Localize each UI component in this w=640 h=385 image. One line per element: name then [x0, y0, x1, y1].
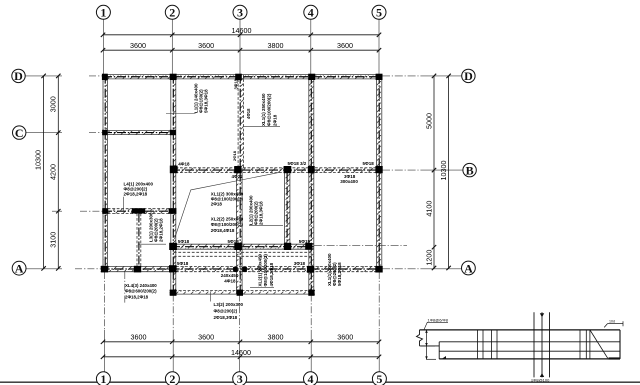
svg-text:14600: 14600: [231, 348, 251, 357]
svg-text:4100: 4100: [424, 201, 433, 217]
svg-text:3600: 3600: [337, 41, 353, 50]
svg-text:XL4(3) 240x400: XL4(3) 240x400: [125, 283, 157, 288]
svg-text:2: 2: [169, 372, 175, 385]
svg-text:2Φ18: 2Φ18: [272, 114, 277, 126]
svg-text:3600: 3600: [198, 332, 214, 341]
svg-text:5: 5: [376, 5, 382, 19]
svg-text:4Φ18: 4Φ18: [178, 162, 190, 167]
svg-text:4Φ18,2Φ18: 4Φ18,2Φ18: [269, 262, 274, 286]
svg-text:10300: 10300: [34, 150, 43, 170]
svg-text:14600: 14600: [232, 26, 252, 35]
svg-text:3800: 3800: [268, 332, 284, 341]
svg-text:Φ8@200(2): Φ8@200(2): [214, 308, 238, 313]
svg-text:4: 4: [308, 5, 314, 19]
svg-text:10d: 10d: [609, 320, 615, 324]
svg-text:XL2(2) 250x450: XL2(2) 250x450: [211, 216, 244, 221]
svg-text:≥Φ8@100: ≥Φ8@100: [531, 378, 550, 383]
svg-text:5Φ18,2Φ18: 5Φ18,2Φ18: [337, 262, 342, 286]
svg-text:2Φ18: 2Φ18: [232, 150, 237, 161]
svg-text:Φ8@100/200(2): Φ8@100/200(2): [211, 222, 244, 227]
svg-text:A: A: [15, 262, 24, 276]
svg-text:3600: 3600: [198, 41, 214, 50]
svg-text:3600: 3600: [131, 332, 147, 341]
svg-text:1: 1: [100, 5, 106, 19]
svg-text:L3(2) 200x300: L3(2) 200x300: [214, 302, 244, 307]
svg-text:B: B: [466, 163, 474, 177]
svg-text:2: 2: [169, 5, 175, 19]
svg-text:3000: 3000: [49, 96, 58, 112]
svg-text:10300: 10300: [439, 161, 448, 181]
svg-text:4200: 4200: [49, 164, 58, 180]
svg-text:XL1(1) 250x450: XL1(1) 250x450: [261, 93, 266, 126]
svg-text:D: D: [14, 69, 23, 83]
svg-text:5Φ18: 5Φ18: [228, 239, 240, 244]
svg-text:4Φ18: 4Φ18: [246, 108, 251, 119]
svg-text:3: 3: [237, 372, 243, 385]
svg-text:Φ8@100/200(2): Φ8@100/200(2): [263, 254, 268, 287]
svg-text:5Φ18 3/2: 5Φ18 3/2: [288, 161, 307, 166]
svg-text:1Φ8@6/Φ8: 1Φ8@6/Φ8: [428, 317, 449, 322]
svg-text:A: A: [464, 261, 473, 275]
svg-text:4Φ18: 4Φ18: [224, 278, 236, 283]
svg-text:D: D: [464, 69, 473, 83]
svg-text:3800: 3800: [268, 41, 284, 50]
svg-text:Φ8@600/200(2): Φ8@600/200(2): [125, 289, 157, 294]
svg-text:3600: 3600: [130, 41, 146, 50]
svg-text:1200: 1200: [424, 250, 433, 266]
svg-text:4: 4: [308, 372, 314, 385]
svg-text:5Φ18: 5Φ18: [363, 161, 375, 166]
svg-text:5Φ18: 5Φ18: [177, 261, 189, 266]
svg-text:XL2(1) 240x450: XL2(1) 240x450: [258, 253, 263, 286]
svg-text:2Φ18,3Φ18: 2Φ18,3Φ18: [258, 201, 263, 225]
svg-text:3: 3: [237, 5, 243, 19]
svg-text:Φ8@100/200(2): Φ8@100/200(2): [267, 93, 272, 126]
svg-text:5000: 5000: [424, 113, 433, 129]
svg-text:3600: 3600: [337, 332, 353, 341]
svg-text:2Φ18,3Φ18: 2Φ18,3Φ18: [214, 315, 238, 320]
svg-text:3Φ18: 3Φ18: [234, 78, 239, 89]
svg-text:4Φ22: 4Φ22: [232, 174, 244, 179]
svg-text:3Φ18: 3Φ18: [294, 261, 306, 266]
svg-text:1: 1: [100, 372, 106, 385]
svg-text:2Φ18,2Φ18: 2Φ18,2Φ18: [125, 294, 149, 299]
svg-text:2Φ18,2Φ18: 2Φ18,2Φ18: [158, 218, 163, 242]
svg-text:5: 5: [376, 372, 382, 385]
svg-text:5Φ18,3Φ18: 5Φ18,3Φ18: [203, 89, 208, 113]
svg-text:300x400: 300x400: [340, 179, 358, 184]
svg-text:2Φ18,2Φ18: 2Φ18,2Φ18: [124, 192, 148, 197]
svg-text:5Φ18: 5Φ18: [299, 239, 311, 244]
svg-text:2Φ18,4Φ18: 2Φ18,4Φ18: [211, 228, 235, 233]
svg-text:C: C: [15, 126, 24, 140]
svg-text:240x450: 240x450: [221, 273, 239, 278]
svg-text:5Φ18: 5Φ18: [178, 239, 190, 244]
svg-text:2Φ18: 2Φ18: [211, 202, 223, 207]
svg-text:3100: 3100: [49, 232, 58, 248]
